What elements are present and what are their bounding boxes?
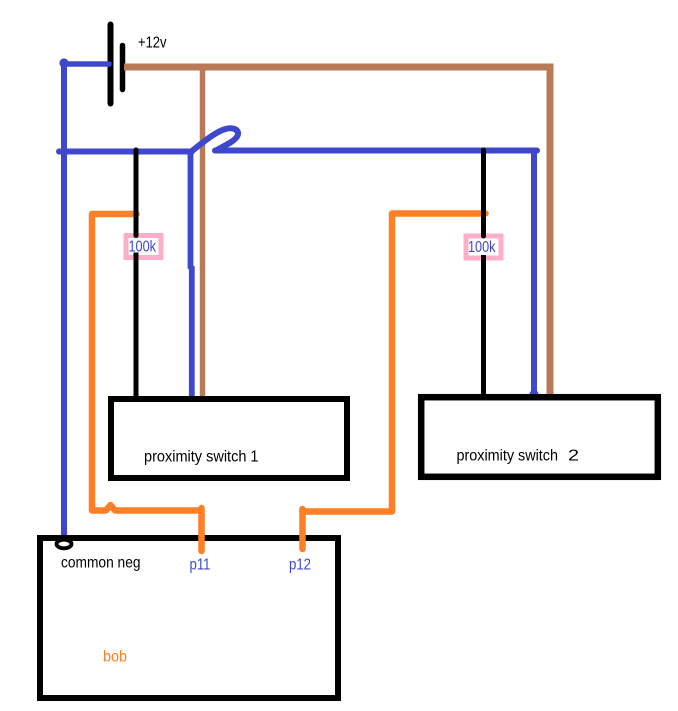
svg-text:100k: 100k [129,239,157,256]
svg-text:bob: bob [103,649,127,666]
wire orange from R1 to p11 [92,214,202,511]
wire blue vertical to proximity switch 1 [191,152,192,398]
terminal ring common neg [57,540,72,549]
svg-text:common neg: common neg [61,555,141,572]
wire brown vertical to proximity switch 1 [200,69,206,398]
wire blue hop loop over brown [190,128,238,152]
svg-text:proximity switch 1: proximity switch 1 [144,449,259,466]
resistor R2 lead top [481,150,486,236]
battery B1 right plate (positive) [120,46,126,90]
wire orange from R2 to p12 [303,214,486,512]
resistor R1 lead bottom [134,253,139,399]
wire blue horizontal right segment [215,148,537,154]
svg-text:2: 2 [568,447,579,464]
svg-text:+12v: +12v [138,34,167,51]
proximity switch 1 box [111,399,347,478]
controller box bob [40,538,338,698]
svg-text:proximity switch: proximity switch [457,447,559,464]
wire orange p11 drop into box [198,508,205,551]
wire blue horizontal left segment [59,149,192,155]
resistor R1 lead top [134,150,139,236]
resistor R2 value box 100k [464,234,504,261]
battery B1 left plate (negative) [108,25,114,104]
svg-text:p12: p12 [289,557,311,574]
proximity switch 2 box [421,397,658,477]
wire blue main vertical (negative rail) [61,63,67,540]
svg-text:p11: p11 [190,557,211,574]
wire orange p12 drop into box [299,509,306,549]
wire blue battery negative horizontal [63,61,109,67]
node blob at blue wire end above proximity switch 2 [529,390,538,399]
svg-text:100k: 100k [468,239,496,256]
wire brown +12V rail with corner down to proximity switch 2 [124,67,550,397]
wire blue vertical to proximity switch 2 [531,151,537,394]
resistor R2 lead bottom [481,255,486,397]
node blob at battery negative corner [59,58,68,67]
resistor R1 value box 100k [124,233,164,260]
